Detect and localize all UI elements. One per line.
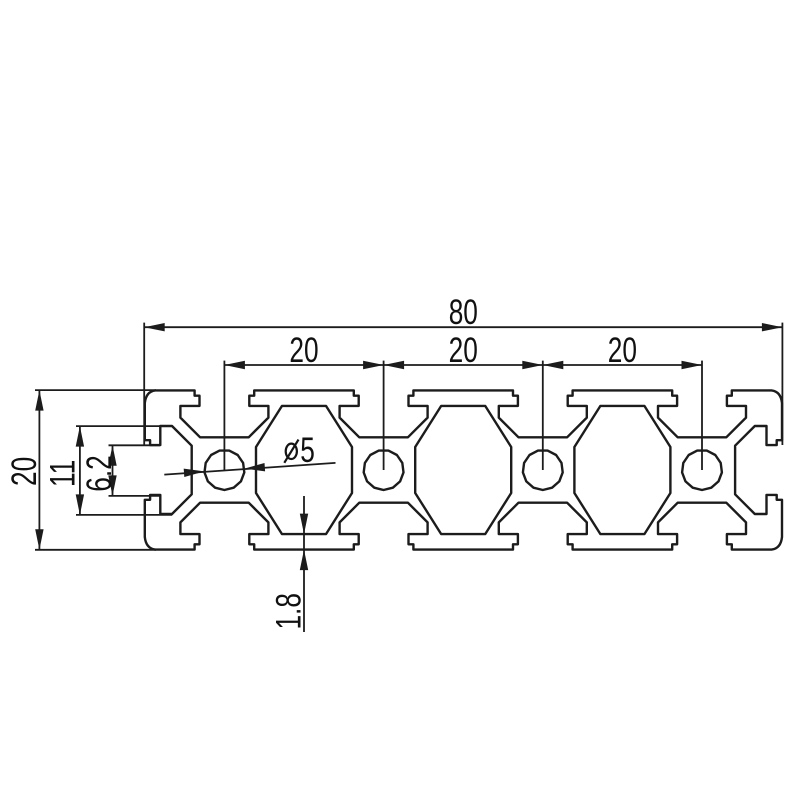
dim 20 height arrow bottom: [35, 529, 43, 550]
dim 20 height arrow top: [35, 390, 43, 411]
dim 6.2 dimension line: [112, 445, 114, 496]
svg-text:5: 5: [300, 430, 315, 470]
centre hole 3 (diam 5): [523, 451, 563, 490]
dim 20 height extension line top: [35, 389, 156, 391]
dim 80 arrow right: [762, 323, 783, 331]
dim 80 arrow left: [144, 323, 165, 331]
dim 6.2 arrow top: [108, 445, 116, 466]
dim 20 height extension line bottom: [35, 549, 156, 551]
centre hole 2 (diam 5): [364, 451, 404, 490]
dim 11 dimension line: [79, 426, 81, 515]
internal octagonal cavity 2: [415, 406, 511, 534]
dim 1.8 arrow upper (tip on cavity floor): [300, 514, 308, 535]
internal octagonal cavity 3: [574, 406, 670, 534]
dim 6.2 extension line bottom: [109, 495, 161, 497]
dim 11 extension line bottom: [76, 514, 172, 516]
dim 20 arrows pair at hole3: [522, 361, 543, 369]
dim 20 chain extension line at hole 3: [542, 361, 544, 470]
dim 20 chain extension line at hole 4: [701, 361, 703, 470]
dim 11 arrow top: [76, 426, 84, 447]
dim 6.2 arrow bottom: [108, 475, 116, 496]
svg-text:1.8: 1.8: [269, 593, 309, 629]
dim diam5 label (diameter symbol + 5): [286, 444, 297, 459]
dim 1.8 arrow lower (tip on bottom surface): [300, 550, 308, 571]
centre hole 4 (diam 5): [682, 451, 722, 490]
dim 1.8 leader line: [303, 496, 305, 632]
dim 11 arrow bottom: [76, 494, 84, 515]
svg-text:20: 20: [608, 330, 637, 370]
dim 80 extension line right: [781, 323, 783, 445]
internal octagonal cavity 1: [256, 406, 352, 534]
dim 20 height dimension line: [38, 390, 40, 550]
dim 20 chain extension line at hole 2: [383, 361, 385, 470]
dim 6.2 extension line top: [109, 444, 161, 446]
dim diam5 arrow left (tip on circle): [184, 469, 205, 477]
dim 80 extension line left: [143, 323, 145, 445]
svg-text:20: 20: [4, 457, 44, 486]
svg-text:20: 20: [449, 330, 478, 370]
dim 20 arrow at hole1 (outward): [224, 361, 245, 369]
dim 80 dimension line: [144, 326, 782, 328]
centre hole 1 (diam 5): [205, 451, 245, 490]
profile outer contour (20x80 extrusion cross-section): [145, 390, 782, 549]
dim 20 arrow at hole4 (outward): [682, 361, 703, 369]
dim 20 chain extension line at hole 1: [223, 361, 225, 470]
dim 11 extension line top: [76, 425, 172, 427]
dim 20 arrows pair at hole2: [363, 361, 384, 369]
svg-text:20: 20: [289, 330, 318, 370]
dim diam5 arrow right (tip on circle): [244, 463, 265, 471]
dim diam5 leader line: [164, 463, 335, 475]
svg-text:80: 80: [449, 292, 478, 332]
svg-text:6.2: 6.2: [79, 455, 119, 491]
svg-text:11: 11: [43, 460, 83, 487]
dim 20 chain dimension line: [224, 364, 702, 366]
